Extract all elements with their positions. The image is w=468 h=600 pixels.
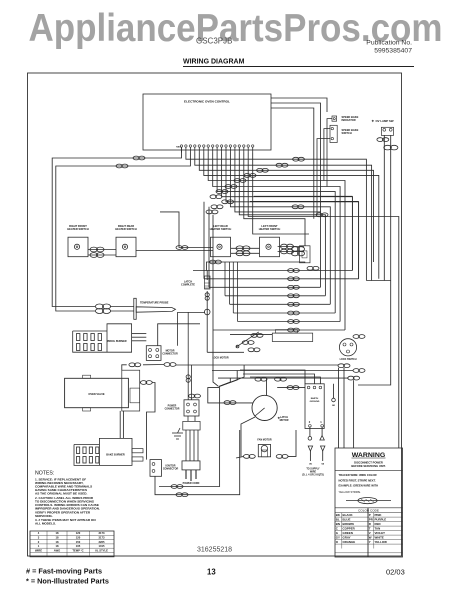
connector mid row 5 — [288, 302, 300, 306]
wire lock down to warning c — [353, 380, 355, 448]
connector on fan wire 12 — [292, 205, 304, 209]
svg-text:TAN: TAN — [375, 526, 381, 530]
door lock top tab — [275, 330, 297, 334]
wires speed bake to bundle — [317, 119, 332, 215]
wire gauge table — [30, 531, 114, 557]
supply arrows up — [308, 446, 312, 451]
wire to latch fuse — [206, 271, 208, 281]
svg-text:EARTHGROUND: EARTHGROUND — [310, 397, 320, 403]
wire across 201 — [250, 200, 359, 202]
node circle on latch wire — [204, 309, 210, 315]
connector on fan wire 7 — [216, 190, 228, 194]
power connector — [184, 400, 199, 416]
color code table — [335, 507, 403, 509]
wire mid row 1 — [193, 270, 352, 272]
connector sw4 right a — [281, 244, 294, 249]
connector on fan wire 5 — [234, 179, 246, 183]
connector on fan wire 6 — [225, 185, 237, 189]
wire mid row 5 — [230, 303, 331, 305]
wire mid row 6 — [233, 312, 335, 314]
svg-text:RIGHT FRONTHEATER SWITCH: RIGHT FRONTHEATER SWITCH — [67, 224, 89, 231]
oven valve inner box — [130, 388, 140, 403]
wire valve down b — [122, 411, 124, 439]
svg-text:105: 105 — [76, 544, 81, 548]
wire tb term1 down — [321, 427, 323, 435]
wire into left rear switch — [160, 212, 213, 248]
wire mid row 2 — [204, 278, 359, 280]
vertical connector on power wire — [186, 375, 190, 382]
verticals from loop to rows — [225, 262, 238, 322]
connector lock switch top — [353, 335, 365, 339]
wire to oven valve block — [122, 365, 127, 370]
connector on fan wire 8 — [210, 195, 222, 199]
wire left bus neg — [52, 147, 181, 306]
wire sw1-sw2 top — [88, 249, 116, 251]
svg-text:LATCHMOTOR: LATCHMOTOR — [280, 416, 289, 422]
svg-text:W: W — [369, 535, 372, 539]
wire across 196 — [254, 195, 352, 197]
svg-text:P: P — [369, 513, 371, 517]
terminal drop wires — [182, 147, 253, 152]
svg-text:18: 18 — [56, 544, 59, 548]
svg-text:V: V — [369, 531, 371, 535]
wire from control terminal 11 — [226, 153, 359, 279]
temperature probe jack — [134, 298, 136, 319]
wire from control terminal 2 — [186, 153, 367, 281]
wire bottom run 2 — [155, 430, 240, 495]
wire from control terminal 9 — [217, 153, 335, 314]
connector on fan wire 3 — [257, 168, 269, 172]
wire from control terminal 7 — [208, 153, 345, 331]
connector on lock lever a — [242, 341, 254, 345]
connector lamp a — [377, 138, 389, 142]
power cord ferrite — [183, 421, 200, 430]
svg-text:TEMP °C: TEMP °C — [72, 548, 83, 552]
border frame — [28, 73, 402, 556]
wire motor conn top — [158, 324, 200, 346]
wire broil 1 — [132, 333, 147, 335]
wire mid row 8 — [213, 329, 345, 331]
connector on lock lever b — [251, 334, 263, 338]
svg-text:LOCK SWITCH: LOCK SWITCH — [340, 358, 357, 361]
oven valve bottom tab — [83, 408, 91, 411]
wire ignitor bottom run — [159, 386, 220, 486]
wire valve to ignitor conn — [147, 383, 156, 460]
tracer wire example — [346, 498, 391, 504]
svg-text:PURPLE: PURPLE — [375, 517, 387, 521]
svg-text:1015: 1015 — [99, 544, 105, 548]
oven lamp switch S5 — [381, 127, 393, 135]
wire lamp a — [383, 135, 385, 280]
connector sw3-sw4 a — [236, 246, 250, 251]
wire tb mid feed — [243, 374, 315, 384]
wire from control terminal 5 — [199, 153, 373, 263]
bake burner — [74, 438, 132, 465]
wire terminal 15 loop to relay — [244, 153, 305, 246]
connector on fan wire 10 — [211, 205, 223, 209]
connector mid row 8 — [288, 328, 300, 332]
wire from control terminal 12 — [230, 153, 330, 305]
left front heater switch — [260, 237, 280, 257]
supply terminal circle — [308, 437, 312, 441]
svg-text:18: 18 — [56, 531, 59, 535]
power cord bundle — [186, 416, 198, 461]
wire fan right — [288, 430, 296, 456]
connector lock area b — [348, 376, 360, 380]
wire into power connector right — [191, 365, 193, 400]
wire from control terminal 4 — [195, 153, 372, 281]
vertical connector under latch — [205, 293, 209, 300]
wire from control terminal 10 — [222, 153, 353, 271]
svg-text:LOCK MOTOR: LOCK MOTOR — [212, 357, 229, 360]
wire from control terminal 13 — [235, 153, 321, 288]
svg-text:COPPER: COPPER — [343, 526, 356, 530]
wire mid vertical c — [212, 215, 214, 330]
svg-text:02/03: 02/03 — [386, 568, 405, 577]
temperature probe body — [136, 307, 175, 312]
svg-text:BLUE: BLUE — [343, 517, 351, 521]
svg-text:3173: 3173 — [99, 536, 105, 540]
svg-text:VIOLET: VIOLET — [375, 531, 386, 535]
connector fan motor left — [243, 455, 255, 459]
svg-text:OVEN VALVE: OVEN VALVE — [88, 392, 105, 396]
svg-text:GY: GY — [336, 535, 340, 539]
svg-text:BROIL BURNER: BROIL BURNER — [107, 340, 126, 343]
svg-text:Publication No.: Publication No. — [366, 40, 412, 47]
svg-text:GREEN: GREEN — [343, 531, 353, 535]
svg-text:TRACER WIRE: WIRE COLORNOTED: TRACER WIRE: WIRE COLORNOTED FIRST, STRI… — [339, 473, 379, 487]
power cord plug — [182, 461, 200, 470]
wire broil 2 — [132, 336, 147, 338]
connector below motor conn a — [129, 363, 141, 367]
svg-text:GSC3PJB: GSC3PJB — [196, 37, 232, 46]
connector sw1 right a — [90, 247, 104, 252]
connector on fan wire 13 — [316, 213, 328, 217]
oven valve top tab — [83, 375, 91, 378]
svg-text:✳: ✳ — [372, 119, 375, 123]
wire outer loop to warning box — [248, 153, 399, 449]
svg-text:316255218: 316255218 — [197, 547, 232, 554]
wire from control terminal 14 — [239, 153, 325, 296]
svg-text:RED: RED — [375, 522, 381, 526]
svg-text:VA: VA — [321, 463, 324, 466]
svg-text:WIRING DIAGRAM: WIRING DIAGRAM — [183, 59, 245, 66]
latch motor — [252, 395, 277, 420]
svg-text:18: 18 — [56, 536, 59, 540]
svg-text:T: T — [369, 526, 371, 530]
svg-text:ELECTRONIC OVEN CONTROL: ELECTRONIC OVEN CONTROL — [184, 100, 230, 104]
svg-text:DISCONNECT POWERBEFORE SERVICI: DISCONNECT POWERBEFORE SERVICING UNIT. — [351, 460, 385, 468]
wire row1 up right — [351, 196, 353, 270]
wire to lock motor base — [207, 351, 244, 353]
connector on loop back — [210, 260, 222, 264]
connector sw4 right c — [292, 247, 305, 252]
svg-text:3173: 3173 — [99, 531, 105, 535]
svg-text:LEFT FRONTHEATER SWITCH: LEFT FRONTHEATER SWITCH — [259, 224, 281, 231]
oven valve right housing — [122, 370, 140, 411]
wire mid vertical a — [203, 202, 205, 279]
door lock assembly — [272, 333, 312, 341]
wire valve down a — [119, 411, 121, 439]
connector sw4 right d — [292, 251, 305, 256]
electronic oven control U1 — [143, 94, 271, 150]
svg-text:BAKE BURNER: BAKE BURNER — [106, 454, 125, 457]
svg-text:5995385407: 5995385407 — [374, 48, 412, 55]
wire terminal 17 jog — [253, 153, 309, 235]
connector on fan wire 1 — [293, 157, 305, 161]
power cord prongs — [186, 470, 196, 481]
wire down into latch motor — [266, 378, 268, 395]
lock motor lever — [236, 332, 259, 348]
connector mid row 4 — [288, 294, 300, 298]
svg-text:BLACK: BLACK — [343, 513, 354, 517]
svg-text:AWG: AWG — [54, 548, 60, 552]
connector lamp b — [384, 145, 398, 150]
connector sw3-sw4 b — [236, 251, 250, 256]
svg-text:YELLOW: YELLOW — [375, 540, 388, 544]
svg-text:13: 13 — [207, 568, 216, 577]
connector latch-TB — [287, 386, 299, 390]
wire supply b — [322, 451, 324, 461]
svg-text:# = Fast-moving Parts: # = Fast-moving Parts — [26, 567, 102, 576]
connector on fan wire 9 — [222, 200, 234, 204]
connector lock area c — [353, 369, 365, 373]
svg-text:WHITE: WHITE — [375, 535, 384, 539]
latch fuse F1 — [205, 276, 211, 289]
connector right of lever — [248, 348, 260, 352]
wire latch motor down — [241, 417, 255, 456]
wire mid row 4 — [225, 295, 325, 297]
svg-text:BN: BN — [336, 522, 340, 526]
oven valve — [65, 378, 129, 407]
svg-text:Y: Y — [369, 540, 371, 544]
wire probe 2 — [110, 310, 134, 312]
wire from control terminal 6 — [204, 153, 379, 279]
lock switch — [339, 339, 356, 356]
connector on left bus — [133, 156, 145, 160]
wire sw4 right a — [278, 246, 304, 248]
connector mid row 7 — [288, 320, 300, 324]
svg-text:OV LAMP SW: OV LAMP SW — [376, 119, 394, 123]
svg-text:NOTES:: NOTES: — [35, 471, 54, 477]
connector sw1 right b — [90, 253, 104, 258]
wire latch to terminal block — [277, 387, 305, 389]
wire control to speed bake 1 — [271, 98, 327, 112]
connector latch motor left — [224, 401, 236, 405]
wire mid row 3 — [209, 286, 321, 288]
wire lock row 1 — [176, 364, 339, 366]
warning box — [335, 448, 403, 557]
broil burner — [73, 324, 132, 352]
wire tb left feed — [240, 370, 305, 384]
svg-text:BROWN: BROWN — [343, 522, 354, 526]
svg-text:GRAY: GRAY — [343, 535, 351, 539]
wire lamp b — [358, 135, 391, 385]
connector bottom run 2 — [176, 493, 188, 497]
svg-text:120: 120 — [76, 531, 81, 535]
right rear heater switch — [116, 237, 136, 257]
terminal block TB1 — [305, 384, 324, 429]
connector left of left rear switch — [176, 246, 188, 250]
connector fan motor right — [276, 455, 288, 459]
ground symbol — [172, 428, 183, 439]
wire fan left — [236, 456, 244, 458]
wire outer join at 280 — [366, 280, 390, 282]
connector sw4 right b — [281, 249, 294, 254]
connector right of valve — [140, 381, 152, 385]
wire to lock assembly — [230, 334, 272, 336]
connector on fan wire 2 — [276, 163, 288, 167]
svg-text:ALL MODELS.: ALL MODELS. — [35, 522, 56, 526]
wire tb term2 down — [309, 427, 311, 436]
fan motor — [258, 445, 270, 457]
svg-text:120: 120 — [76, 536, 81, 540]
stub — [140, 382, 141, 384]
wire node to power connector — [178, 312, 205, 345]
wire control to speed bake 3 — [271, 108, 314, 219]
terminal strip of U1 — [180, 145, 254, 147]
door relay — [300, 246, 311, 263]
svg-text:GD: GD — [332, 405, 336, 407]
connector row1 right — [307, 266, 319, 270]
connector on fan wire 4 — [244, 174, 256, 178]
connector ignitor run — [171, 485, 183, 489]
wire sw1-sw2 bottom — [88, 254, 116, 256]
svg-text:UL STYLE: UL STYLE — [95, 548, 108, 552]
svg-text:FAN MOTOR: FAN MOTOR — [257, 438, 272, 441]
svg-text:BL: BL — [336, 517, 340, 521]
connector mid row 2 — [288, 277, 300, 281]
svg-text:YELLOW STRIPE.: YELLOW STRIPE. — [339, 490, 362, 494]
svg-text:POWER CORD: POWER CORD — [183, 482, 200, 485]
notes text — [35, 478, 100, 526]
connector on fan wire 11 — [206, 210, 218, 214]
svg-text:18: 18 — [56, 540, 59, 544]
connector lock area a — [338, 364, 350, 368]
wire sw4 loop back — [207, 262, 305, 271]
wire sw2-sw3 — [136, 250, 213, 252]
svg-text:RIGHT REARHEATER SWITCH: RIGHT REARHEATER SWITCH — [115, 224, 137, 231]
speed bake indicator DS2 — [332, 116, 337, 121]
wire conn-conn — [143, 364, 164, 366]
wire control to speed bake 2 — [271, 103, 321, 212]
wire tb right feed — [250, 377, 320, 384]
connector below motor conn b — [164, 363, 176, 367]
wire mid vertical b — [208, 207, 210, 287]
bake burner tab b — [132, 457, 143, 461]
wire broil 3 — [132, 340, 147, 342]
svg-text:WIRE: WIRE — [35, 548, 42, 552]
connector above power connector — [189, 394, 201, 398]
motor connector — [146, 346, 161, 361]
wire left bus 2 — [56, 153, 191, 312]
wire row2 up right — [358, 201, 360, 278]
wire sw3-sw4 a — [231, 247, 260, 249]
svg-text:PINK: PINK — [375, 513, 383, 517]
wire probe 1 — [110, 306, 134, 308]
supply arrow down — [320, 436, 324, 441]
bake burner tab a — [132, 449, 143, 453]
ignitor connector — [150, 460, 162, 477]
svg-text:* = Non-Illustrated Parts: * = Non-Illustrated Parts — [26, 577, 109, 586]
wire lock down to warning b — [343, 368, 345, 448]
connector mid row 6 — [288, 311, 300, 315]
svg-text:150: 150 — [76, 540, 81, 544]
wire right stub — [333, 384, 335, 398]
wire sw3-sw4 b — [231, 252, 260, 254]
wire lock row 2 — [212, 370, 353, 372]
wire node down to power connector — [187, 312, 189, 399]
connector on left bus 2 — [116, 164, 128, 168]
right front heater switch — [68, 237, 88, 257]
connector mid row 1 — [288, 269, 300, 273]
svg-text:VA: VA — [309, 463, 312, 466]
connector mid row 3 — [288, 285, 300, 289]
svg-text:ORANGE: ORANGE — [343, 540, 356, 544]
svg-text:3265: 3265 — [99, 540, 105, 544]
wire mid row 7 — [238, 321, 341, 323]
wire sw4 right b — [278, 251, 304, 253]
connector lock row 3 b — [275, 377, 287, 381]
door relay inner — [302, 251, 307, 258]
svg-text:NEG: NEG — [176, 146, 181, 148]
probe connector b — [95, 309, 110, 314]
connector lock row 3 a — [255, 377, 267, 381]
wire lock down to warning a — [338, 368, 340, 448]
wire into latch motor — [208, 388, 253, 403]
wire from latch fuse — [206, 291, 208, 352]
left rear heater switch — [211, 237, 231, 257]
svg-text:TEMPERATURE PROBE: TEMPERATURE PROBE — [140, 302, 169, 305]
speed bake switch S6 — [330, 125, 337, 142]
probe connector a — [95, 304, 110, 309]
wire funnel verticals converging — [213, 330, 244, 386]
wire from control terminal 8 — [213, 153, 340, 322]
wire lock row 3 — [218, 377, 349, 379]
wire supply a — [309, 451, 311, 461]
